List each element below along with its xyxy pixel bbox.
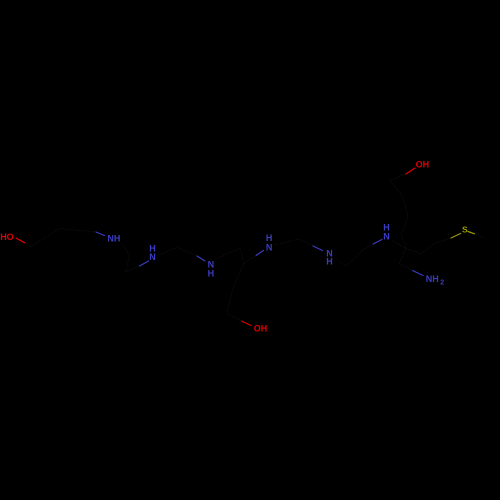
- svg-text:H: H: [266, 233, 273, 243]
- svg-text:H: H: [326, 257, 333, 267]
- svg-text:2: 2: [440, 279, 444, 286]
- svg-text:N: N: [383, 232, 390, 242]
- svg-text:HO: HO: [0, 232, 14, 242]
- svg-text:S: S: [462, 225, 468, 235]
- svg-text:OH: OH: [254, 323, 268, 333]
- svg-text:N: N: [149, 252, 156, 262]
- svg-text:N: N: [266, 243, 273, 253]
- svg-text:OH: OH: [416, 159, 430, 169]
- svg-text:NH: NH: [107, 234, 120, 244]
- svg-text:NH: NH: [426, 274, 439, 284]
- svg-text:H: H: [208, 269, 215, 279]
